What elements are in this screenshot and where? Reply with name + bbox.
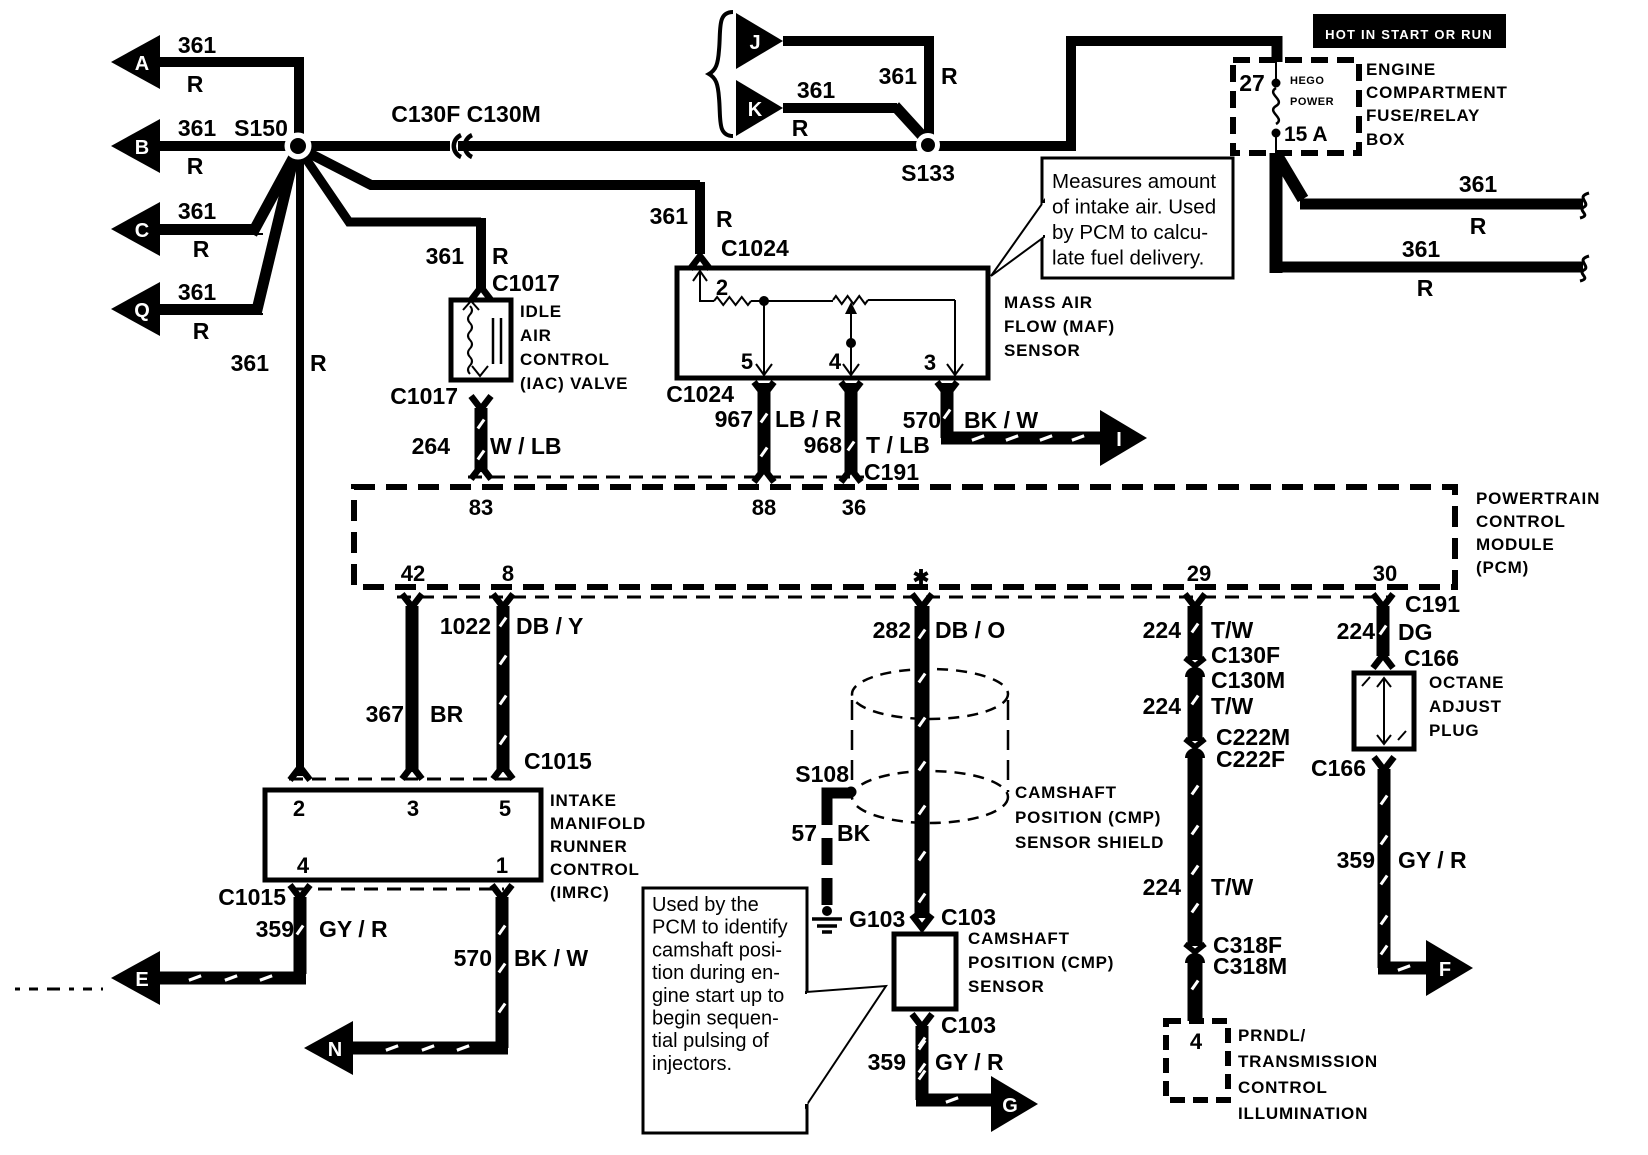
svg-text:Q: Q — [134, 300, 150, 322]
svg-text:27: 27 — [1239, 70, 1265, 96]
svg-text:361: 361 — [178, 115, 217, 141]
svg-text:R: R — [941, 63, 958, 89]
svg-text:1022: 1022 — [440, 613, 491, 639]
svg-text:W / LB: W / LB — [490, 433, 562, 459]
svg-text:224: 224 — [1143, 874, 1182, 900]
svg-text:B: B — [135, 137, 149, 159]
svg-text:42: 42 — [401, 561, 425, 586]
svg-text:C1015: C1015 — [524, 748, 592, 774]
svg-text:361: 361 — [426, 243, 465, 269]
svg-text:C222F: C222F — [1216, 746, 1285, 772]
svg-text:C1017: C1017 — [492, 270, 560, 296]
svg-text:359: 359 — [1337, 847, 1375, 873]
svg-text:K: K — [748, 99, 763, 121]
svg-text:967: 967 — [715, 406, 753, 432]
svg-text:POSITION (CMP): POSITION (CMP) — [968, 953, 1114, 972]
svg-text:CONTROL: CONTROL — [520, 350, 610, 369]
svg-text:GY / R: GY / R — [1398, 847, 1467, 873]
svg-text:C130M: C130M — [1211, 667, 1285, 693]
svg-text:C166: C166 — [1311, 755, 1366, 781]
svg-text:TRANSMISSION: TRANSMISSION — [1238, 1052, 1378, 1071]
svg-text:359: 359 — [256, 916, 294, 942]
svg-text:✱: ✱ — [913, 567, 930, 589]
svg-text:BK: BK — [837, 820, 871, 846]
svg-text:G: G — [1002, 1095, 1018, 1117]
svg-text:CONTROL: CONTROL — [1476, 512, 1566, 531]
svg-text:S108: S108 — [795, 761, 849, 787]
svg-text:282: 282 — [873, 617, 911, 643]
svg-text:AIR: AIR — [520, 326, 552, 345]
svg-text:BOX: BOX — [1366, 130, 1405, 149]
svg-text:C318M: C318M — [1213, 953, 1287, 979]
svg-text:C130F C130M: C130F C130M — [391, 101, 541, 127]
svg-text:Measures amount: Measures amount — [1052, 170, 1216, 193]
svg-text:tial pulsing of: tial pulsing of — [652, 1030, 769, 1052]
svg-text:(IMRC): (IMRC) — [550, 883, 610, 902]
svg-text:F: F — [1439, 959, 1451, 981]
svg-text:C1015: C1015 — [218, 884, 286, 910]
svg-text:S150: S150 — [234, 115, 288, 141]
svg-text:C1024: C1024 — [666, 381, 734, 407]
svg-text:4: 4 — [297, 853, 310, 878]
svg-text:FLOW (MAF): FLOW (MAF) — [1004, 317, 1115, 336]
svg-text:S133: S133 — [901, 160, 955, 186]
svg-text:367: 367 — [366, 701, 404, 727]
svg-text:DG: DG — [1398, 619, 1433, 645]
svg-text:R: R — [310, 350, 327, 376]
svg-text:C103: C103 — [941, 904, 996, 930]
svg-text:C191: C191 — [1405, 591, 1460, 617]
svg-text:POWER: POWER — [1290, 96, 1334, 108]
svg-text:R: R — [193, 236, 210, 262]
svg-text:361: 361 — [1402, 236, 1441, 262]
svg-text:R: R — [193, 318, 210, 344]
svg-text:36: 36 — [842, 495, 866, 520]
svg-text:POWERTRAIN: POWERTRAIN — [1476, 489, 1600, 508]
svg-text:CONTROL: CONTROL — [1238, 1078, 1328, 1097]
svg-text:PLUG: PLUG — [1429, 721, 1479, 740]
svg-text:G103: G103 — [849, 906, 905, 932]
svg-text:(IAC) VALVE: (IAC) VALVE — [520, 374, 628, 393]
svg-text:PCM to identify: PCM to identify — [652, 917, 788, 939]
svg-text:3: 3 — [924, 350, 936, 375]
svg-text:COMPARTMENT: COMPARTMENT — [1366, 83, 1508, 102]
svg-text:GY / R: GY / R — [935, 1049, 1004, 1075]
svg-text:POSITION (CMP): POSITION (CMP) — [1015, 808, 1161, 827]
svg-text:R: R — [187, 153, 204, 179]
svg-text:361: 361 — [178, 198, 217, 224]
svg-text:C1024: C1024 — [721, 235, 789, 261]
svg-text:J: J — [749, 32, 760, 54]
svg-text:HEGO: HEGO — [1290, 75, 1324, 87]
svg-text:C: C — [135, 220, 149, 242]
svg-text:R: R — [187, 71, 204, 97]
svg-text:3: 3 — [407, 796, 419, 821]
svg-text:CONTROL: CONTROL — [550, 860, 640, 879]
svg-text:A: A — [135, 53, 149, 75]
svg-text:15 A: 15 A — [1284, 123, 1328, 146]
svg-text:SENSOR: SENSOR — [1004, 341, 1081, 360]
svg-text:ENGINE: ENGINE — [1366, 60, 1436, 79]
svg-text:BR: BR — [430, 701, 464, 727]
svg-text:E: E — [135, 969, 148, 991]
svg-text:83: 83 — [469, 495, 493, 520]
svg-text:BK / W: BK / W — [964, 407, 1038, 433]
svg-text:264: 264 — [412, 433, 451, 459]
svg-text:T/W: T/W — [1211, 617, 1253, 643]
svg-text:968: 968 — [804, 432, 843, 458]
svg-text:570: 570 — [903, 407, 941, 433]
svg-text:INTAKE: INTAKE — [550, 791, 617, 810]
svg-text:T/W: T/W — [1211, 874, 1253, 900]
svg-text:by PCM to calcu-: by PCM to calcu- — [1052, 221, 1208, 244]
svg-text:GY / R: GY / R — [319, 916, 388, 942]
svg-text:MODULE: MODULE — [1476, 535, 1554, 554]
svg-text:SENSOR SHIELD: SENSOR SHIELD — [1015, 833, 1164, 852]
svg-text:224: 224 — [1143, 617, 1182, 643]
svg-text:361: 361 — [231, 350, 270, 376]
svg-text:C103: C103 — [941, 1012, 996, 1038]
svg-text:4: 4 — [1190, 1029, 1203, 1054]
svg-text:R: R — [1470, 213, 1487, 239]
svg-text:(PCM): (PCM) — [1476, 558, 1529, 577]
svg-text:begin sequen-: begin sequen- — [652, 1008, 779, 1030]
svg-text:injectors.: injectors. — [652, 1053, 732, 1075]
svg-text:DB / Y: DB / Y — [516, 613, 583, 639]
svg-text:MANIFOLD: MANIFOLD — [550, 814, 646, 833]
svg-text:R: R — [492, 243, 509, 269]
svg-text:N: N — [328, 1039, 342, 1061]
svg-text:C1017: C1017 — [390, 383, 458, 409]
svg-text:gine start up to: gine start up to — [652, 985, 784, 1007]
svg-text:PRNDL/: PRNDL/ — [1238, 1026, 1306, 1045]
svg-text:C191: C191 — [864, 459, 919, 485]
svg-text:T/W: T/W — [1211, 693, 1253, 719]
svg-text:HOT IN START OR RUN: HOT IN START OR RUN — [1325, 27, 1493, 42]
svg-text:SENSOR: SENSOR — [968, 977, 1045, 996]
svg-text:C130F: C130F — [1211, 642, 1280, 668]
svg-text:224: 224 — [1337, 618, 1376, 644]
svg-text:361: 361 — [178, 279, 217, 305]
svg-text:ADJUST: ADJUST — [1429, 697, 1502, 716]
svg-text:late fuel delivery.: late fuel delivery. — [1052, 247, 1204, 270]
svg-text:5: 5 — [499, 796, 511, 821]
svg-text:camshaft posi-: camshaft posi- — [652, 939, 782, 961]
svg-text:8: 8 — [502, 561, 514, 586]
svg-text:R: R — [792, 115, 809, 141]
svg-text:361: 361 — [178, 32, 217, 58]
svg-text:BK / W: BK / W — [514, 945, 588, 971]
svg-text:tion during en-: tion during en- — [652, 962, 780, 984]
svg-text:of intake air. Used: of intake air. Used — [1052, 196, 1216, 219]
svg-text:FUSE/RELAY: FUSE/RELAY — [1366, 106, 1480, 125]
svg-text:30: 30 — [1373, 561, 1397, 586]
svg-text:570: 570 — [454, 945, 492, 971]
svg-text:T / LB: T / LB — [866, 432, 930, 458]
svg-text:MASS AIR: MASS AIR — [1004, 293, 1093, 312]
svg-text:R: R — [1417, 275, 1434, 301]
svg-text:2: 2 — [716, 275, 728, 300]
svg-text:I: I — [1116, 429, 1122, 451]
svg-text:Used by the: Used by the — [652, 894, 759, 916]
svg-text:57: 57 — [791, 820, 817, 846]
svg-text:RUNNER: RUNNER — [550, 837, 628, 856]
svg-text:224: 224 — [1143, 693, 1182, 719]
svg-text:4: 4 — [829, 349, 842, 374]
svg-text:LB / R: LB / R — [775, 406, 842, 432]
svg-text:C166: C166 — [1404, 645, 1459, 671]
svg-text:OCTANE: OCTANE — [1429, 673, 1504, 692]
svg-text:5: 5 — [741, 349, 753, 374]
svg-text:361: 361 — [879, 63, 918, 89]
svg-text:361: 361 — [650, 203, 689, 229]
svg-text:R: R — [716, 206, 733, 232]
svg-text:CAMSHAFT: CAMSHAFT — [968, 929, 1070, 948]
svg-text:359: 359 — [868, 1049, 906, 1075]
svg-text:DB / O: DB / O — [935, 617, 1005, 643]
svg-text:CAMSHAFT: CAMSHAFT — [1015, 783, 1117, 802]
svg-text:ILLUMINATION: ILLUMINATION — [1238, 1104, 1368, 1123]
svg-text:1: 1 — [496, 853, 508, 878]
svg-text:2: 2 — [293, 796, 305, 821]
svg-text:IDLE: IDLE — [520, 302, 562, 321]
svg-text:361: 361 — [797, 77, 836, 103]
svg-text:29: 29 — [1187, 561, 1211, 586]
svg-text:88: 88 — [752, 495, 776, 520]
svg-text:361: 361 — [1459, 171, 1498, 197]
